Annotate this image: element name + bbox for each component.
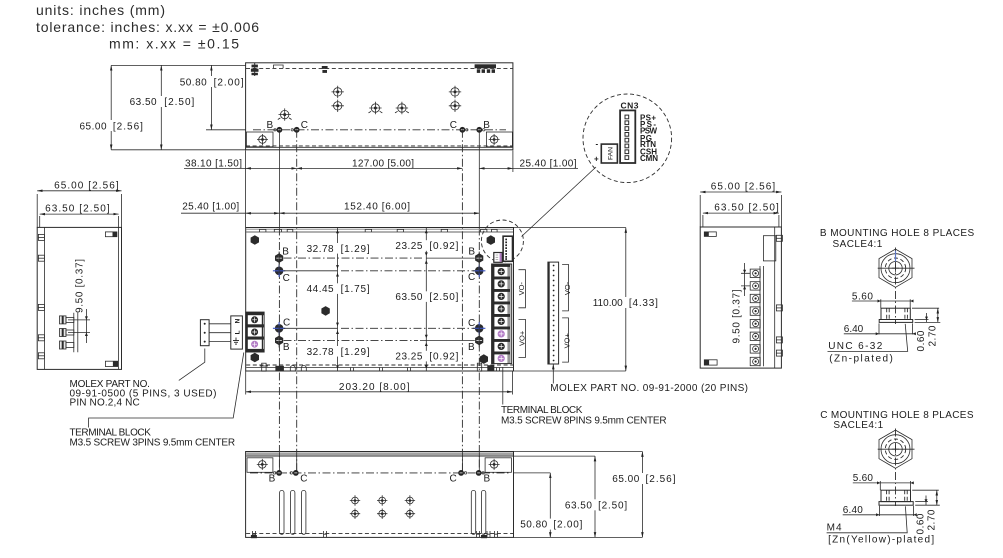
bottom edge tick pair 1 bbox=[351, 368, 354, 372]
dim 152.40 line bbox=[279, 212, 479, 214]
clip 1 left edge bbox=[38, 234, 44, 240]
hole C right bottom view bbox=[458, 470, 466, 476]
fan hole target 2 bbox=[332, 100, 344, 112]
hole target 7 bbox=[395, 102, 409, 114]
bottom edge screw detail bbox=[260, 363, 268, 371]
C nut center cross bbox=[892, 446, 899, 453]
dim B 5.60 extensions bbox=[881, 299, 910, 308]
dim 38.10 line bbox=[246, 167, 297, 169]
svg-text:[2.50]: [2.50] bbox=[598, 500, 627, 511]
C right extension top bbox=[912, 489, 939, 491]
vent slot 1 bbox=[280, 490, 284, 534]
dim 50.80 bottom vertical bbox=[549, 473, 551, 538]
svg-text:23.25: 23.25 bbox=[395, 241, 422, 252]
svg-text:25.40 [1.00]: 25.40 [1.00] bbox=[182, 201, 239, 212]
main view bottom dashed line bbox=[246, 364, 513, 366]
molex 5-pin connector bbox=[200, 320, 209, 346]
dim 63.50 extension lines right view bbox=[703, 215, 779, 227]
svg-text:FAN: FAN bbox=[608, 147, 615, 160]
svg-text:63.50: 63.50 bbox=[565, 500, 592, 511]
svg-text:C: C bbox=[283, 273, 290, 284]
terminal screws side column bbox=[750, 269, 760, 366]
foot bottom left bbox=[704, 360, 717, 365]
svg-text:44.45: 44.45 bbox=[307, 284, 334, 295]
output screw 6 purple bbox=[498, 330, 505, 337]
leader terminal block note bbox=[89, 353, 244, 428]
svg-text:2.70: 2.70 bbox=[926, 509, 937, 530]
leader M4 bbox=[827, 506, 908, 533]
row line C upper bbox=[284, 270, 475, 272]
dim B 0.60 line bbox=[926, 313, 928, 322]
top view inner bottom line bbox=[246, 146, 513, 148]
terminal block 8pin right lines bbox=[508, 264, 510, 364]
right side view inner wall bbox=[774, 227, 776, 368]
svg-text:203.20 [8.00]: 203.20 [8.00] bbox=[339, 382, 410, 393]
dim 9.50 vertical line bbox=[85, 309, 87, 343]
molex pin dots bbox=[204, 323, 206, 343]
molex 20 pin left thick edge bbox=[548, 262, 550, 364]
hole B upper left hex bbox=[275, 253, 283, 263]
leader UNC bbox=[828, 324, 908, 352]
svg-text:C: C bbox=[450, 120, 457, 131]
dim row2 tail left bbox=[181, 212, 246, 214]
bottom edge arch 2 bbox=[301, 366, 306, 372]
C nut outer circle bbox=[881, 435, 910, 464]
extension line 203 right bbox=[511, 372, 513, 395]
bottom view inner top line bbox=[246, 455, 513, 457]
bottom feet tick 4 bbox=[487, 531, 490, 538]
svg-text:23.25: 23.25 bbox=[395, 352, 422, 363]
dim 65.00 line bbox=[37, 190, 121, 192]
B right extension top bbox=[912, 307, 939, 309]
svg-text:65.00: 65.00 bbox=[80, 121, 107, 132]
svg-text:[0.92]: [0.92] bbox=[429, 241, 458, 252]
molex 20 pin body bbox=[548, 262, 559, 364]
dim 65.00 bottom vertical bbox=[641, 452, 643, 538]
svg-text:0.60: 0.60 bbox=[916, 330, 927, 351]
B nut vertical centerline bbox=[895, 248, 897, 325]
svg-text:63.50: 63.50 bbox=[395, 292, 422, 303]
leader molex 20 note bbox=[552, 364, 554, 384]
svg-text:MOLEX PART NO. 09-91-2000 (20: MOLEX PART NO. 09-91-2000 (20 PINS) bbox=[550, 383, 748, 394]
connector CN3 pins bbox=[625, 115, 629, 159]
foot bottom right bbox=[105, 361, 117, 366]
extension top right bottom view bbox=[514, 451, 643, 453]
main view outline bbox=[246, 228, 514, 372]
left side view outline bbox=[37, 227, 121, 369]
svg-text:[0.92]: [0.92] bbox=[429, 352, 458, 363]
pcb hole target row1 col1 bbox=[350, 495, 360, 505]
svg-text:63.50: 63.50 bbox=[130, 97, 157, 108]
dim 50.80 text bbox=[180, 76, 244, 88]
wire 3 bbox=[209, 341, 231, 343]
CN3 connector side view bbox=[763, 236, 775, 261]
svg-text:SACLE4:1: SACLE4:1 bbox=[833, 420, 883, 431]
C nut horizontal centerline bbox=[878, 448, 915, 450]
svg-text:[Zn(Yellow)-plated]: [Zn(Yellow)-plated] bbox=[828, 535, 934, 546]
dim 65.00 extension lines bbox=[37, 194, 121, 227]
C nut vertical centerline bbox=[895, 429, 897, 507]
B nut center cross bbox=[892, 265, 899, 272]
svg-text:63.50 [2.50]: 63.50 [2.50] bbox=[714, 202, 779, 213]
svg-text:50.80: 50.80 bbox=[180, 77, 207, 88]
clip 4 right edge bbox=[776, 350, 782, 356]
svg-text:SACLE4:1: SACLE4:1 bbox=[833, 239, 883, 250]
svg-text:[2.50]: [2.50] bbox=[164, 97, 194, 108]
dim C 5.60 extensions bbox=[880, 481, 910, 490]
C nut thread dashed circle bbox=[885, 439, 905, 459]
B nut side flange bbox=[879, 320, 913, 323]
row line B upper bbox=[284, 257, 475, 259]
C nut side body bbox=[881, 490, 911, 501]
B nut blue mark bbox=[895, 251, 897, 262]
C right extension bottom bbox=[915, 504, 940, 506]
extension line view right edge down bbox=[512, 151, 514, 173]
clip 3 left edge bbox=[38, 304, 44, 310]
pcb hole target row2 col3 bbox=[405, 509, 415, 519]
svg-text:9.50 [0.37]: 9.50 [0.37] bbox=[732, 289, 743, 343]
leader from detail circle to chassis bbox=[522, 167, 597, 237]
top view bottom dashed edge bbox=[246, 145, 513, 147]
svg-text:UNC 6-32: UNC 6-32 bbox=[828, 341, 883, 352]
chassis CN3 small dashed circle bbox=[481, 220, 523, 262]
terminal block 8pin body bbox=[492, 264, 512, 364]
bottom edge tick pair 2 bbox=[380, 368, 383, 372]
label earth bbox=[233, 338, 239, 345]
clip 1 right edge bbox=[776, 235, 782, 241]
svg-text:B: B bbox=[282, 246, 289, 257]
svg-text:B: B bbox=[483, 120, 490, 131]
dim C 5.60 line bbox=[853, 482, 913, 484]
svg-text:[2.56]: [2.56] bbox=[646, 474, 676, 485]
molex 20 pin dots bbox=[553, 265, 555, 362]
svg-text:L: L bbox=[234, 330, 241, 334]
dim 127.00 line bbox=[297, 167, 463, 169]
svg-text:(Zn-plated): (Zn-plated) bbox=[829, 353, 893, 364]
hole B left bottom view bbox=[274, 470, 283, 476]
dim 65.00 vertical line bbox=[110, 65, 112, 149]
terminal screw side 2 bbox=[60, 329, 74, 337]
chassis CN3 connector bbox=[503, 236, 512, 261]
dim row1 tail left bbox=[184, 167, 246, 169]
bottom view top band gray bbox=[246, 452, 513, 456]
centerline C right vertical bbox=[461, 130, 463, 473]
bracket VO+ terminal block bbox=[519, 319, 526, 357]
pcb hole target row1 col3 bbox=[405, 495, 415, 505]
dim 25.40 right tail bbox=[513, 167, 578, 169]
screw S1 on top edge bbox=[251, 63, 259, 76]
svg-text:C: C bbox=[468, 272, 475, 283]
dim 65.00 extension lines right view bbox=[700, 195, 781, 227]
dim line A vertical bbox=[337, 228, 339, 372]
svg-text:B: B bbox=[484, 473, 491, 484]
bottom edge tick pair 3 bbox=[408, 368, 411, 372]
svg-text:63.50 [2.50]: 63.50 [2.50] bbox=[45, 203, 110, 214]
leader output terminal note bbox=[502, 367, 504, 405]
dim B 2.70 line bbox=[937, 308, 939, 322]
dim 9.50 extension lines right view bbox=[741, 273, 750, 286]
corner box bottom right bbox=[485, 458, 511, 473]
wire 2 bbox=[209, 332, 231, 334]
bracket VO- terminal block bbox=[519, 270, 526, 308]
left side view inner wall bbox=[43, 227, 45, 369]
dim C 0.60 line bbox=[925, 496, 927, 506]
hole target 5 bbox=[278, 108, 292, 120]
bottom feet tick 2 bbox=[324, 531, 327, 538]
terminal block 8pin separators bbox=[492, 264, 510, 354]
svg-text:C: C bbox=[301, 120, 308, 131]
dim 32.78 upper text bbox=[305, 243, 371, 255]
dim 65.00 text bbox=[79, 120, 145, 132]
top view cover dashed edge bbox=[246, 67, 513, 69]
connector CN3 body bbox=[620, 110, 635, 163]
svg-text:152.40 [6.00]: 152.40 [6.00] bbox=[344, 201, 410, 212]
dim 63.50 line bbox=[40, 213, 119, 215]
corner box left target bbox=[257, 134, 268, 145]
dim 63.50 vertical line bbox=[160, 65, 162, 149]
svg-text:5.60: 5.60 bbox=[853, 473, 874, 484]
dim 63.50 line right view bbox=[703, 212, 779, 214]
svg-text:6.40: 6.40 bbox=[844, 324, 864, 335]
output screw 2 bbox=[498, 280, 505, 287]
dim 9.50 vertical line right view bbox=[744, 263, 746, 296]
svg-text:CMN: CMN bbox=[640, 154, 658, 163]
output screw 7 bbox=[498, 343, 505, 350]
svg-text:M3.5 SCREW 3PINS 9.5mm CENTER: M3.5 SCREW 3PINS 9.5mm CENTER bbox=[70, 438, 236, 449]
svg-text:65.00 [2.56]: 65.00 [2.56] bbox=[711, 181, 776, 192]
svg-text:2.70: 2.70 bbox=[927, 325, 938, 346]
svg-text:PIN NO.2,4 NC: PIN NO.2,4 NC bbox=[70, 398, 140, 409]
C nut hexagon bbox=[879, 430, 912, 468]
svg-text:M4: M4 bbox=[827, 522, 842, 533]
hole C lower left bbox=[273, 322, 285, 334]
svg-text:9.50 [0.37]: 9.50 [0.37] bbox=[75, 259, 86, 313]
svg-text:B: B bbox=[269, 473, 276, 484]
dim 23.25 lower text bbox=[393, 351, 459, 363]
svg-text:50.80: 50.80 bbox=[520, 520, 547, 531]
dim B 5.60 line bbox=[852, 300, 912, 302]
corner screw hex top right bbox=[487, 235, 495, 245]
terminal block 3pin rails bbox=[246, 312, 248, 352]
fan hole target 3 bbox=[449, 86, 461, 98]
bottom feet tick 1 bbox=[253, 531, 256, 538]
svg-text:+: + bbox=[594, 155, 599, 164]
dim 9.50 extension lines bbox=[68, 320, 90, 333]
svg-text:C: C bbox=[450, 473, 457, 484]
clip 2 right edge bbox=[776, 305, 782, 311]
input label strip bbox=[231, 316, 243, 349]
corner screw hex top left bbox=[251, 235, 259, 245]
centerline extension to dims bbox=[514, 472, 551, 474]
corner box right bbox=[486, 132, 512, 147]
dim C 6.40 extensions bbox=[879, 506, 913, 516]
dim line B vertical bbox=[425, 228, 427, 372]
hole B left on centerline bbox=[274, 127, 283, 133]
clip 3 right edge bbox=[776, 337, 782, 343]
hole B right bottom view bbox=[476, 470, 484, 476]
B nut side body bbox=[881, 308, 910, 319]
bottom feet tick 3 bbox=[477, 531, 480, 538]
svg-text:N: N bbox=[234, 318, 241, 323]
output screw 3 bbox=[498, 293, 505, 300]
svg-text:VO-: VO- bbox=[517, 282, 526, 296]
dim 65.00 bottom text bbox=[610, 473, 676, 485]
bottom view centerline bbox=[250, 472, 509, 474]
extension second top right bbox=[514, 455, 596, 457]
svg-text:B: B bbox=[468, 246, 475, 257]
output screw 8 purple bbox=[498, 355, 505, 362]
svg-text:C: C bbox=[300, 473, 307, 484]
svg-text:mm: x.xx = ±0.15: mm: x.xx = ±0.15 bbox=[109, 36, 239, 52]
hole B right on centerline bbox=[476, 127, 485, 133]
dim 63.50 text bbox=[129, 96, 195, 108]
dim B 6.40 line bbox=[844, 333, 915, 335]
dim 50.80 bottom text bbox=[516, 519, 583, 531]
svg-text:38.10 [1.50]: 38.10 [1.50] bbox=[185, 159, 242, 170]
terminal screw side 3 bbox=[60, 341, 74, 349]
svg-text:65.00: 65.00 bbox=[612, 474, 639, 485]
clip 4 left edge bbox=[38, 335, 44, 341]
pcb hole target row1 col2 bbox=[377, 495, 387, 505]
bottom view outline bbox=[246, 452, 514, 538]
vent slot 2 bbox=[291, 490, 295, 534]
row line C lower bbox=[284, 327, 475, 329]
B nut hexagon bbox=[879, 249, 912, 287]
terminal block 3pin body bbox=[246, 312, 264, 352]
bottom edge dark tab bbox=[275, 366, 284, 371]
svg-text:B: B bbox=[283, 342, 290, 353]
bottom edge arch 1 bbox=[290, 366, 295, 372]
svg-text:[1.29]: [1.29] bbox=[341, 244, 370, 255]
top view centerline bbox=[253, 129, 506, 131]
corner box left bbox=[246, 132, 273, 147]
B right extension bottom bbox=[915, 321, 941, 323]
svg-text:CN3: CN3 bbox=[621, 101, 640, 111]
dim 63.50 extension lines bbox=[40, 216, 119, 227]
B right extension mid bbox=[915, 319, 929, 321]
svg-text:C: C bbox=[468, 318, 475, 329]
bracket VO- molex bbox=[562, 264, 568, 311]
svg-text:[2.00]: [2.00] bbox=[553, 520, 582, 531]
clip 5 left edge bbox=[38, 353, 44, 359]
hole C lower right bbox=[473, 322, 485, 334]
tab on top edge bbox=[274, 65, 284, 68]
extension line bottom right bbox=[514, 370, 626, 372]
svg-text:tolerance: inches: x.xx = ±0.0: tolerance: inches: x.xx = ±0.006 bbox=[36, 19, 259, 35]
dim 32.78 lower text bbox=[305, 346, 371, 358]
C nut side thread lines bbox=[887, 490, 908, 501]
fan connector box bbox=[601, 144, 617, 163]
corner box bottom left bbox=[247, 458, 273, 473]
svg-text:VO+: VO+ bbox=[563, 332, 572, 348]
svg-text:B: B bbox=[267, 120, 274, 131]
svg-text:127.00 [5.00]: 127.00 [5.00] bbox=[352, 159, 414, 170]
svg-text:[2.00]: [2.00] bbox=[214, 77, 244, 88]
extension bottom right bottom view bbox=[514, 536, 643, 538]
hole C left on centerline bbox=[291, 127, 300, 133]
B nut side thread lines bbox=[887, 308, 908, 319]
bottom feet tick 5 bbox=[495, 531, 498, 538]
terminal block side wall bbox=[760, 266, 763, 366]
dim 25.40 row2 line bbox=[246, 212, 280, 214]
clip 2 left edge bbox=[38, 255, 44, 261]
screw S3 on top edge bbox=[475, 64, 496, 73]
left side view inner right line bbox=[118, 227, 120, 369]
vent slot 4 bbox=[471, 490, 475, 534]
center screw hex bbox=[321, 306, 329, 316]
top view outline bbox=[246, 63, 513, 150]
screw S2 on top edge bbox=[322, 66, 328, 73]
hole target 6 bbox=[369, 102, 383, 114]
output screw 5 bbox=[498, 318, 505, 325]
fan hole target 1 bbox=[332, 86, 344, 98]
svg-text:VO+: VO+ bbox=[517, 330, 526, 346]
svg-text:25.40 [1.00]: 25.40 [1.00] bbox=[520, 159, 577, 170]
pcb hole target row2 col2 bbox=[377, 509, 387, 519]
dim 44.45 text bbox=[305, 283, 371, 295]
dim B 6.40 extensions bbox=[879, 323, 913, 334]
bottom right feet cluster bbox=[477, 363, 499, 371]
centerline B right vertical bbox=[478, 130, 480, 228]
svg-text:M3.5 SCREW 8PINS 9.5mm CENTER: M3.5 SCREW 8PINS 9.5mm CENTER bbox=[501, 415, 667, 426]
corner box right target bbox=[489, 134, 500, 145]
C right extension mid bbox=[915, 501, 928, 503]
terminal screw 3 purple bbox=[251, 341, 258, 348]
svg-text:110.00: 110.00 bbox=[593, 298, 623, 309]
wire 1 bbox=[209, 323, 231, 325]
right side view outline bbox=[700, 227, 781, 368]
terminal screw 1 bbox=[251, 316, 258, 323]
hole B upper right hex bbox=[475, 253, 483, 263]
svg-text:0.60: 0.60 bbox=[915, 513, 926, 534]
svg-text:32.78: 32.78 bbox=[307, 347, 334, 358]
B nut horizontal centerline bbox=[878, 267, 915, 269]
extension line view left edge down bbox=[245, 151, 247, 228]
chassis CN3 pin dots bbox=[505, 239, 507, 260]
bottom foot dark left bbox=[251, 535, 257, 538]
dim 63.50 text bbox=[393, 291, 459, 303]
extension line 203 left bbox=[245, 372, 247, 395]
bottom view dashed bottom line bbox=[246, 532, 513, 534]
chassis FAN connector bbox=[494, 253, 502, 263]
svg-text:VO-: VO- bbox=[563, 281, 572, 295]
centerline B left vertical bbox=[278, 130, 280, 228]
svg-text:units: inches (mm): units: inches (mm) bbox=[36, 2, 165, 18]
pcb hole target row2 col1 bbox=[350, 509, 360, 519]
extension line top left bbox=[111, 64, 245, 66]
bottom foot dark right bbox=[481, 535, 487, 538]
dim C 2.70 line bbox=[936, 490, 938, 505]
foot top left bbox=[704, 232, 716, 237]
svg-text:[1.75]: [1.75] bbox=[341, 284, 370, 295]
B nut thread dashed circle bbox=[885, 258, 905, 278]
corner box bottom right target bbox=[489, 459, 500, 470]
hole C upper right bbox=[473, 265, 485, 277]
output screw 1 bbox=[498, 268, 505, 275]
row line B lower bbox=[284, 339, 475, 341]
leader molex note bbox=[179, 349, 205, 381]
C nut inner circle bbox=[889, 443, 902, 456]
B nut inner circle bbox=[889, 262, 902, 275]
C nut side flange bbox=[879, 502, 913, 506]
svg-text:B: B bbox=[468, 342, 475, 353]
svg-text:-: - bbox=[596, 140, 599, 149]
hole C right on centerline bbox=[460, 127, 468, 133]
hole C left bottom view bbox=[290, 470, 299, 476]
dim 110.00 vertical line bbox=[625, 228, 627, 372]
bracket VO+ molex bbox=[562, 318, 568, 362]
hole C upper left bbox=[273, 265, 285, 277]
